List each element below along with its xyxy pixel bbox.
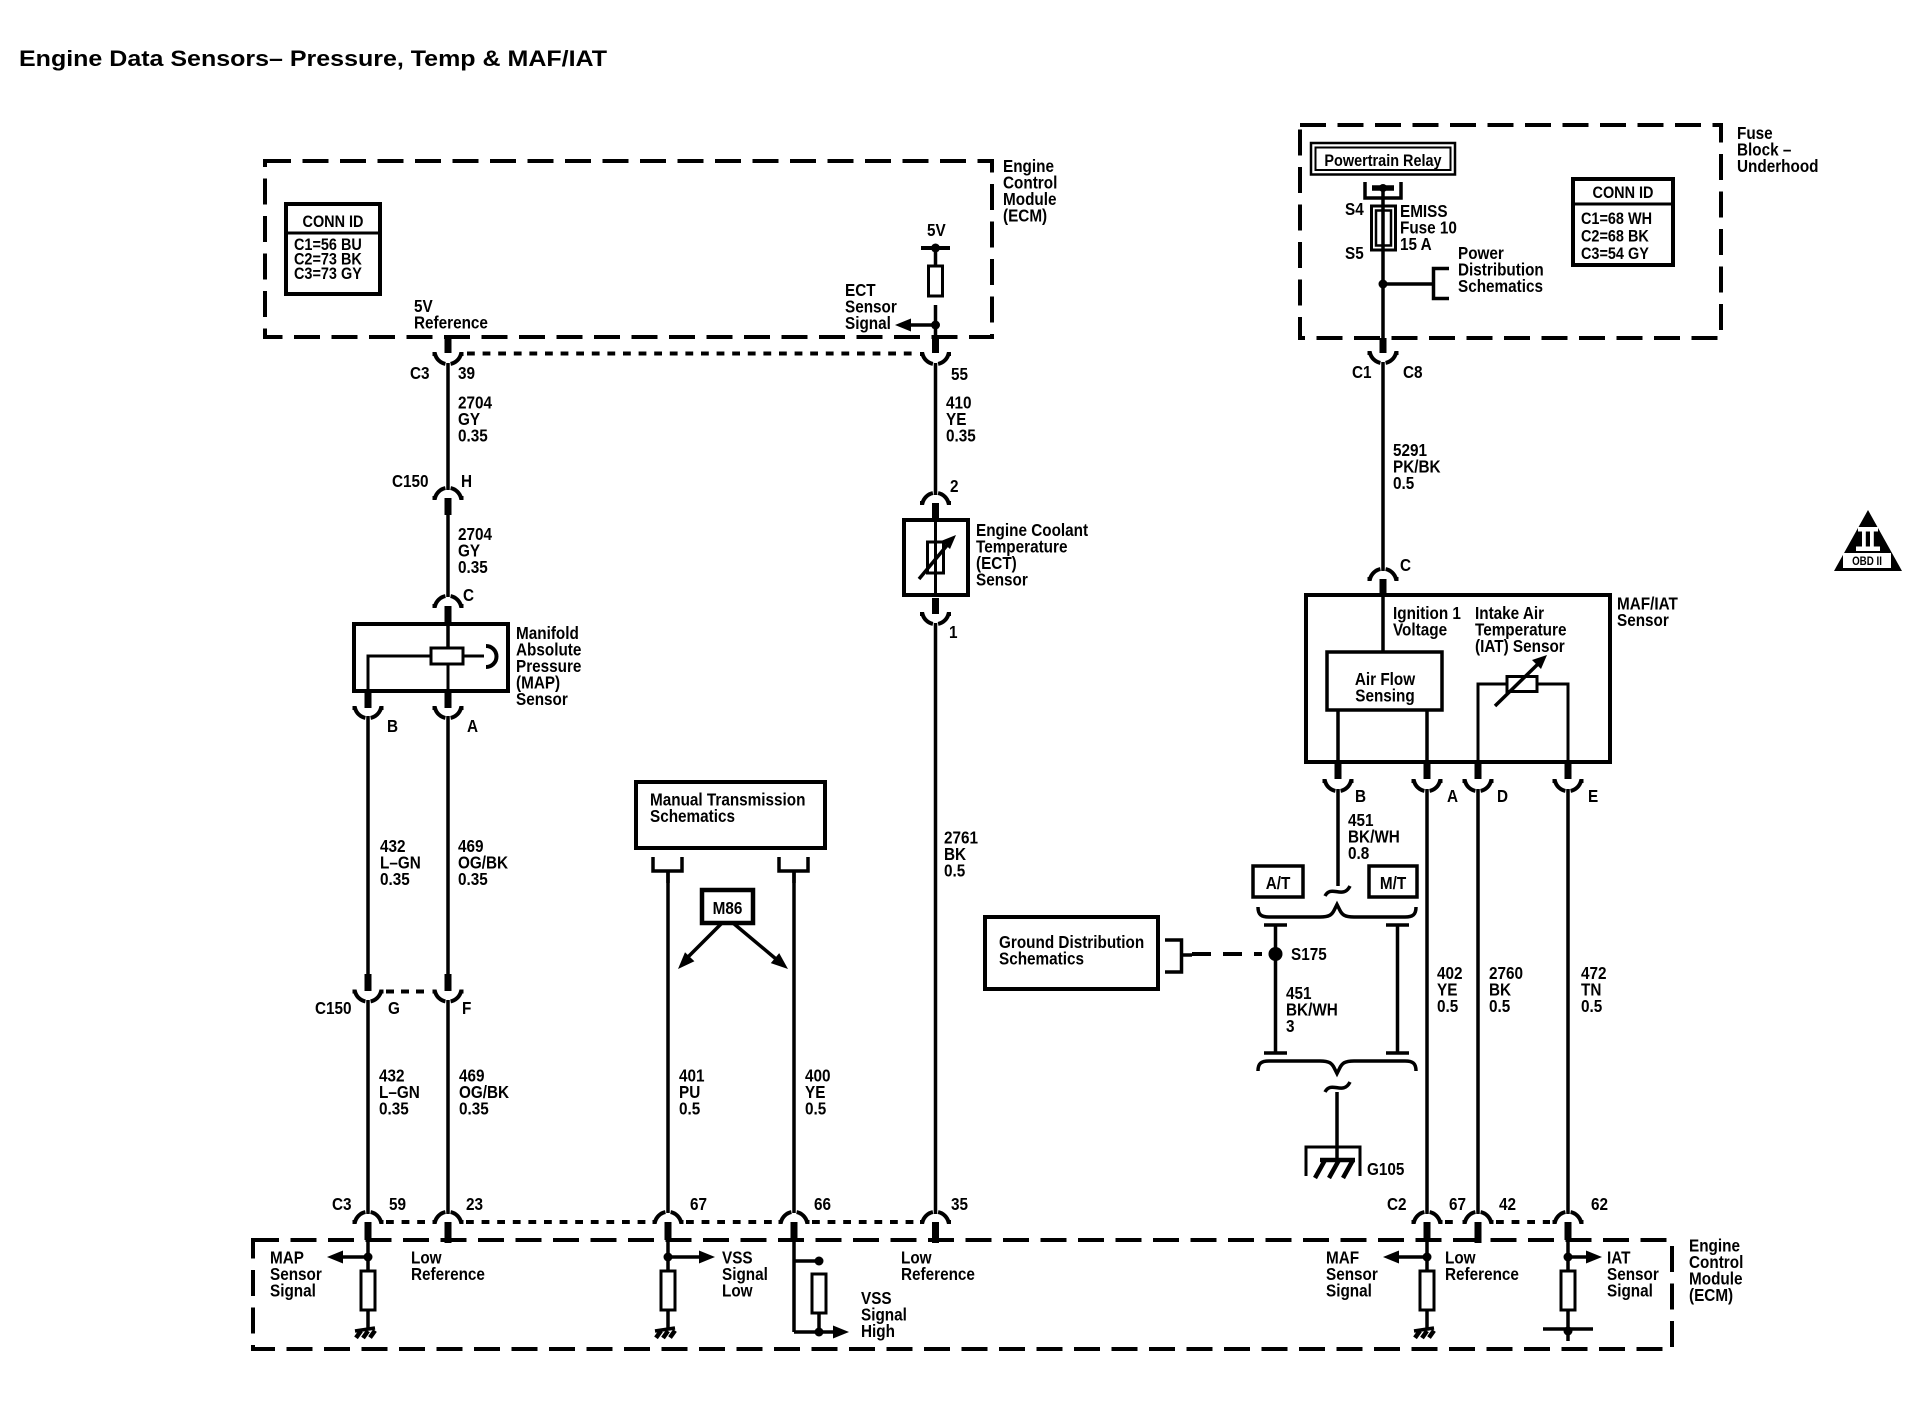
- svg-text:0.35: 0.35: [459, 1098, 489, 1118]
- svg-text:0.5: 0.5: [805, 1098, 826, 1118]
- svg-text:35: 35: [951, 1194, 968, 1214]
- svg-text:0.5: 0.5: [679, 1098, 700, 1118]
- svg-text:C: C: [463, 585, 474, 605]
- svg-text:C3=73 GY: C3=73 GY: [294, 265, 362, 283]
- svg-text:C8: C8: [1403, 362, 1423, 382]
- svg-text:A: A: [1447, 786, 1458, 806]
- svg-text:Powertrain Relay: Powertrain Relay: [1324, 152, 1441, 170]
- svg-text:Signal: Signal: [1607, 1280, 1653, 1300]
- svg-text:Engine Data Sensors– Pressure,: Engine Data Sensors– Pressure, Temp & MA…: [19, 46, 608, 71]
- svg-text:C3=54 GY: C3=54 GY: [1581, 245, 1649, 263]
- svg-text:Sensor: Sensor: [1617, 610, 1669, 630]
- svg-text:0.5: 0.5: [1489, 996, 1510, 1016]
- svg-text:23: 23: [466, 1194, 483, 1214]
- svg-text:Reference: Reference: [1445, 1264, 1519, 1284]
- svg-text:55: 55: [951, 364, 968, 384]
- svg-text:(ECM): (ECM): [1689, 1285, 1733, 1305]
- svg-text:67: 67: [690, 1194, 707, 1214]
- svg-text:S5: S5: [1345, 243, 1364, 263]
- svg-text:Low: Low: [722, 1280, 753, 1300]
- svg-text:0.5: 0.5: [1581, 996, 1602, 1016]
- svg-text:G105: G105: [1367, 1159, 1404, 1179]
- svg-text:0.5: 0.5: [1437, 996, 1458, 1016]
- svg-text:Voltage: Voltage: [1393, 619, 1447, 639]
- svg-text:0.35: 0.35: [380, 869, 410, 889]
- svg-text:Sensing: Sensing: [1355, 685, 1414, 705]
- svg-text:C2: C2: [1387, 1194, 1407, 1214]
- svg-text:S175: S175: [1291, 944, 1327, 964]
- svg-text:Signal: Signal: [845, 313, 891, 333]
- svg-text:C3: C3: [332, 1194, 352, 1214]
- svg-text:15 A: 15 A: [1400, 234, 1432, 254]
- svg-text:H: H: [461, 471, 472, 491]
- svg-text:C150: C150: [315, 998, 352, 1018]
- svg-text:0.35: 0.35: [946, 425, 976, 445]
- svg-text:2: 2: [950, 476, 959, 496]
- svg-text:C1=68 WH: C1=68 WH: [1581, 210, 1652, 228]
- svg-text:5V: 5V: [927, 220, 946, 240]
- svg-text:Underhood: Underhood: [1737, 156, 1819, 176]
- svg-text:39: 39: [458, 363, 475, 383]
- svg-text:59: 59: [389, 1194, 406, 1214]
- svg-text:OBD II: OBD II: [1852, 555, 1882, 568]
- svg-text:S4: S4: [1345, 199, 1364, 219]
- svg-text:F: F: [462, 998, 471, 1018]
- svg-text:Reference: Reference: [411, 1264, 485, 1284]
- svg-text:Sensor: Sensor: [516, 689, 568, 709]
- svg-text:67: 67: [1449, 1194, 1466, 1214]
- svg-text:0.35: 0.35: [458, 425, 488, 445]
- svg-text:M86: M86: [713, 898, 743, 918]
- svg-text:(ECM): (ECM): [1003, 205, 1047, 225]
- svg-text:Schematics: Schematics: [650, 806, 735, 826]
- svg-text:Signal: Signal: [1326, 1280, 1372, 1300]
- svg-text:A: A: [467, 716, 478, 736]
- svg-text:Signal: Signal: [270, 1280, 316, 1300]
- svg-text:M/T: M/T: [1380, 873, 1407, 893]
- svg-text:Reference: Reference: [901, 1264, 975, 1284]
- svg-text:Reference: Reference: [414, 312, 488, 332]
- svg-text:0.35: 0.35: [379, 1098, 409, 1118]
- svg-text:Schematics: Schematics: [1458, 276, 1543, 296]
- svg-text:B: B: [1355, 786, 1366, 806]
- svg-text:G: G: [388, 998, 400, 1018]
- svg-text:C: C: [1400, 555, 1411, 575]
- svg-text:66: 66: [814, 1194, 831, 1214]
- svg-text:CONN ID: CONN ID: [303, 213, 364, 231]
- svg-text:0.8: 0.8: [1348, 843, 1369, 863]
- svg-text:A/T: A/T: [1266, 873, 1291, 893]
- svg-text:0.35: 0.35: [458, 869, 488, 889]
- svg-text:C2=68 BK: C2=68 BK: [1581, 227, 1649, 245]
- svg-text:(IAT) Sensor: (IAT) Sensor: [1475, 636, 1565, 656]
- svg-text:0.5: 0.5: [944, 860, 965, 880]
- svg-text:0.35: 0.35: [458, 557, 488, 577]
- svg-text:0.5: 0.5: [1393, 473, 1414, 493]
- svg-text:3: 3: [1286, 1016, 1295, 1036]
- svg-text:CONN ID: CONN ID: [1593, 184, 1654, 202]
- svg-text:Sensor: Sensor: [976, 569, 1028, 589]
- svg-text:62: 62: [1591, 1194, 1608, 1214]
- svg-text:1: 1: [949, 622, 958, 642]
- svg-text:High: High: [861, 1321, 895, 1341]
- svg-text:D: D: [1497, 786, 1508, 806]
- svg-text:B: B: [387, 716, 398, 736]
- svg-text:42: 42: [1499, 1194, 1516, 1214]
- svg-text:Schematics: Schematics: [999, 948, 1084, 968]
- svg-text:E: E: [1588, 786, 1598, 806]
- svg-text:C150: C150: [392, 471, 429, 491]
- svg-text:C1: C1: [1352, 362, 1372, 382]
- svg-text:C3: C3: [410, 363, 430, 383]
